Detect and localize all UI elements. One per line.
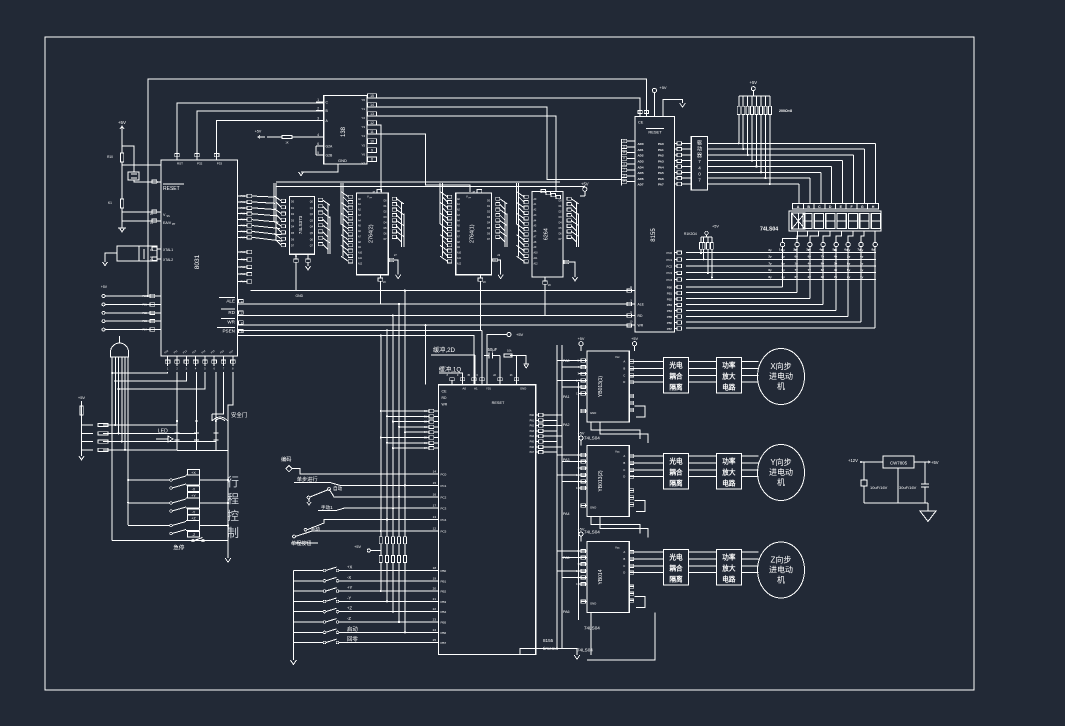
svg-text:手动1: 手动1: [321, 504, 333, 511]
svg-text:AD4: AD4: [638, 165, 644, 169]
svg-text:4y: 4y: [781, 275, 785, 279]
svg-text:PB3: PB3: [667, 303, 673, 307]
svg-text:PA4: PA4: [658, 165, 664, 169]
U5 bottom pin: [478, 275, 486, 284]
+5V supply for reset: [118, 120, 126, 153]
svg-text:8y: 8y: [872, 248, 876, 252]
svg-text:回零: 回零: [347, 636, 358, 643]
svg-text:G2A: G2A: [326, 145, 334, 149]
svg-text:A1: A1: [474, 387, 478, 391]
svg-text:急停: 急停: [173, 544, 185, 552]
wire LED col3 feed: [215, 372, 217, 418]
svg-text:RD: RD: [442, 396, 447, 400]
EPROM U5 2764(1) body: [456, 193, 492, 275]
svg-text:7: 7: [698, 159, 701, 164]
svg-text:A10: A10: [358, 252, 363, 255]
gate vertical r2: [118, 357, 120, 433]
wire reset branch: [122, 146, 134, 172]
svg-text:进电动: 进电动: [769, 467, 793, 477]
svg-text:8y: 8y: [821, 261, 825, 265]
svg-text:PA6: PA6: [658, 177, 664, 181]
svg-text:3y: 3y: [834, 261, 838, 265]
svg-text:7y: 7y: [781, 268, 785, 272]
svg-text:进电动: 进电动: [769, 371, 793, 381]
driver IC YB013(2): [576, 446, 634, 517]
svg-text:3y: 3y: [847, 275, 851, 279]
wire row pc2: [329, 489, 439, 497]
resistor R2: [120, 199, 123, 208]
svg-text:+5V: +5V: [516, 332, 524, 337]
svg-text:12: 12: [433, 527, 437, 531]
svg-text:PA7: PA7: [530, 451, 535, 454]
svg-text:25: 25: [433, 638, 437, 642]
svg-text:光电: 光电: [668, 360, 683, 369]
U7 AD/PA labels: [638, 142, 664, 187]
U7 label RESET: [646, 128, 664, 134]
svg-text:A0: A0: [462, 387, 466, 391]
svg-text:4: 4: [317, 133, 319, 137]
svg-text:A: A: [797, 205, 800, 209]
U7 +5V pin: [652, 85, 667, 116]
svg-text:GND: GND: [590, 411, 596, 415]
rail B: [561, 345, 563, 648]
svg-text:K1: K1: [108, 201, 112, 205]
svg-text:CE: CE: [638, 121, 644, 125]
psu gnd bus: [864, 503, 928, 511]
svg-text:机: 机: [777, 381, 785, 391]
svg-text:C: C: [623, 564, 625, 568]
label danbu: [294, 475, 330, 483]
svg-text:P00: P00: [241, 195, 246, 198]
svg-text:P06: P06: [241, 230, 246, 233]
svg-text:A12: A12: [358, 262, 363, 265]
wire vss: [122, 212, 161, 221]
svg-text:74LS04: 74LS04: [584, 530, 600, 535]
svg-text:2y: 2y: [847, 255, 851, 259]
U9 bottom gnd: [520, 649, 580, 660]
svg-text:1y: 1y: [860, 268, 864, 272]
label 74LS04 y4: [577, 648, 593, 653]
svg-text:Y4: Y4: [361, 134, 365, 138]
8031 P1 pins: [238, 250, 252, 283]
svg-text:19: 19: [433, 576, 437, 580]
door label: [231, 411, 247, 419]
svg-text:3y: 3y: [806, 248, 810, 252]
wire vert v2: [398, 303, 400, 537]
wire A net: [217, 121, 324, 154]
svg-text:PA3: PA3: [658, 160, 664, 164]
wire Y0 to 8155: [377, 98, 640, 116]
+5V YB1 b: [631, 337, 638, 351]
svg-text:6y: 6y: [808, 255, 812, 259]
bus ALE: [238, 303, 635, 305]
svg-text:PB3: PB3: [441, 600, 447, 604]
resistor R 10k: [504, 349, 516, 385]
+5V left block: [78, 395, 86, 450]
psu ground: [920, 511, 936, 521]
svg-text:PA1: PA1: [563, 395, 570, 399]
+5V label left: [101, 285, 108, 289]
svg-text:18: 18: [433, 566, 437, 570]
svg-text:YB014: YB014: [598, 569, 604, 584]
driver chain wires 2: [634, 456, 759, 477]
svg-text:耦合: 耦合: [669, 563, 683, 572]
wire: [121, 208, 123, 228]
svg-text:7: 7: [698, 178, 701, 183]
svg-text:X向步: X向步: [770, 361, 791, 371]
label danchen: [291, 531, 439, 547]
svg-text:PC0: PC0: [441, 473, 447, 477]
U4 right fan: [392, 197, 404, 247]
resistor R1: [120, 153, 123, 162]
AND gate G1: [111, 343, 129, 357]
U9 PB pins: [430, 566, 447, 645]
svg-text:H: H: [872, 205, 875, 209]
latch output boxes near U7: [541, 190, 560, 199]
svg-text:隔离: 隔离: [669, 382, 683, 391]
crystal X1 with caps: [117, 246, 157, 261]
pin 9 box: [152, 180, 159, 184]
svg-text:P21: P21: [142, 302, 147, 306]
U3 ground: [305, 262, 310, 270]
svg-text:8y: 8y: [847, 261, 851, 265]
gate vertical r3: [121, 357, 123, 442]
U7 top pin1: [638, 111, 642, 117]
wire Y0 entry: [639, 112, 641, 116]
U6 bottom pin: [543, 277, 552, 287]
svg-text:PA5: PA5: [658, 171, 664, 175]
svg-text:Y6: Y6: [361, 152, 365, 156]
svg-text:8y: 8y: [768, 275, 772, 279]
svg-text:2764(1): 2764(1): [470, 224, 476, 243]
+5V YB1 a: [578, 337, 585, 351]
label buffer 2D: [431, 346, 475, 355]
svg-text:PB7: PB7: [441, 641, 447, 645]
U5 left fan: [440, 183, 452, 263]
svg-text:B: B: [623, 366, 625, 370]
svg-text:6y: 6y: [844, 248, 848, 252]
svg-text:+5V: +5V: [659, 85, 667, 90]
svg-text:RESET: RESET: [492, 401, 505, 405]
svg-text:+5V: +5V: [255, 130, 262, 134]
svg-text:8: 8: [371, 157, 373, 161]
svg-text:+5V: +5V: [118, 120, 126, 125]
svg-text:P32: P32: [197, 162, 203, 166]
svg-text:Z向步: Z向步: [771, 555, 792, 565]
svg-text:timeout: timeout: [543, 646, 559, 651]
U7 AD pin boxes: [622, 139, 635, 186]
svg-text:隔离: 隔离: [669, 574, 683, 583]
U2 gnd wire: [299, 146, 338, 176]
svg-text:功率: 功率: [722, 360, 736, 369]
svg-text:PA5: PA5: [530, 441, 535, 444]
svg-text:7y: 7y: [795, 268, 799, 272]
svg-text:5y: 5y: [833, 248, 837, 252]
svg-text:74LS04: 74LS04: [760, 227, 778, 233]
svg-text:缓冲,2D: 缓冲,2D: [433, 346, 456, 354]
label R10k: [107, 155, 113, 159]
wire xtal2: [157, 258, 161, 260]
svg-text:2: 2: [317, 107, 319, 111]
svg-text:RD: RD: [228, 310, 235, 315]
wire P1 pin4: [118, 372, 205, 390]
svg-text:PSEN: PSEN: [222, 329, 235, 334]
wire vert v1: [404, 290, 406, 537]
svg-text:12: 12: [370, 121, 374, 125]
svg-text:光电: 光电: [668, 456, 683, 465]
svg-text:A: A: [623, 550, 625, 554]
wire row2: [330, 483, 439, 486]
U5 CS down to 8255: [479, 281, 481, 330]
svg-text:+5V: +5V: [101, 285, 108, 289]
svg-text:PC1: PC1: [667, 258, 673, 262]
svg-text:6264: 6264: [544, 228, 550, 240]
svg-text:Y2: Y2: [361, 116, 365, 120]
svg-text:23: 23: [433, 618, 437, 622]
svg-text:安全门: 安全门: [231, 411, 247, 419]
svg-text:A12: A12: [534, 262, 539, 265]
U9 PA wires to rails: [543, 415, 562, 452]
svg-text:8y: 8y: [781, 261, 785, 265]
svg-text:A: A: [623, 360, 625, 364]
svg-text:WR: WR: [227, 320, 235, 325]
rail stubs: [557, 361, 581, 585]
svg-text:2y: 2y: [768, 248, 772, 252]
wire vert v3: [392, 314, 394, 536]
8031 top pins: [175, 152, 223, 166]
svg-text:4: 4: [698, 165, 701, 170]
svg-text:+Y: +Y: [347, 585, 352, 590]
digit driver transistors: [780, 232, 877, 329]
svg-text:PA0: PA0: [658, 142, 664, 146]
svg-text:YB013(1): YB013(1): [598, 376, 604, 397]
svg-text:PB5: PB5: [441, 621, 447, 625]
svg-text:2764(2): 2764(2): [368, 224, 374, 243]
svg-text:4y: 4y: [808, 261, 812, 265]
svg-text:2y: 2y: [808, 275, 812, 279]
wire: [121, 162, 123, 199]
svg-text:P11: P11: [241, 258, 246, 261]
svg-text:CE: CE: [442, 390, 448, 394]
svg-text:AD1: AD1: [638, 148, 644, 152]
7-segment display DS1: [789, 211, 881, 231]
svg-text:YB013(2): YB013(2): [598, 470, 604, 491]
svg-text:+5V: +5V: [712, 225, 719, 229]
+5V YB2: [578, 432, 585, 446]
bus line A: [276, 181, 560, 183]
svg-text:电路: 电路: [722, 574, 736, 583]
pull-up resistor bank: [354, 537, 406, 634]
label Vss: [163, 213, 170, 218]
svg-text:17: 17: [433, 504, 437, 508]
U9 label RESET: [492, 401, 505, 405]
U6 CS down to bus: [544, 284, 546, 315]
svg-text:RESET: RESET: [163, 186, 180, 192]
stepper motor M1: [758, 349, 805, 405]
IC U7 8155 body: [635, 116, 675, 332]
svg-text:+5V: +5V: [354, 545, 361, 549]
U7 top pin2: [644, 111, 648, 117]
U4 bottom pin: [378, 275, 386, 284]
svg-text:PC3: PC3: [441, 507, 447, 511]
U4 Vcc label: [367, 190, 382, 200]
U9 top pins: [447, 374, 527, 391]
svg-text:1y: 1y: [779, 248, 783, 252]
svg-text:放大: 放大: [721, 467, 736, 476]
travel limit switches: [128, 470, 229, 538]
svg-text:PA4: PA4: [563, 512, 570, 516]
svg-text:D: D: [623, 380, 625, 384]
svg-text:AD0: AD0: [638, 142, 644, 146]
svg-text:6y: 6y: [768, 268, 772, 272]
bus ext2: [238, 336, 475, 385]
svg-text:Vcc: Vcc: [615, 355, 620, 359]
label K1: [108, 201, 112, 205]
wire encoder row: [292, 469, 438, 474]
driver IC YB014: [576, 542, 634, 613]
svg-text:SS: SS: [167, 215, 171, 218]
svg-text:10uF/16V: 10uF/16V: [870, 485, 888, 490]
U6 right fan: [567, 197, 579, 247]
svg-text:耦合: 耦合: [669, 371, 683, 380]
svg-text:PB0: PB0: [667, 286, 673, 290]
svg-text:8155: 8155: [543, 638, 554, 643]
svg-text:制: 制: [227, 526, 239, 540]
svg-text:D: D: [623, 571, 625, 575]
svg-text:功率: 功率: [722, 552, 736, 561]
svg-text:15: 15: [370, 94, 374, 98]
svg-text:D: D: [623, 475, 625, 479]
U2 left pins: [316, 98, 333, 158]
wire vert v6: [380, 334, 382, 536]
label shoudong1: [318, 504, 439, 511]
svg-text:-Y: -Y: [347, 595, 351, 600]
svg-text:隔离: 隔离: [669, 478, 683, 487]
IC U9 8255 body: [439, 385, 536, 655]
svg-text:AD2: AD2: [638, 154, 644, 158]
travel rail: [225, 421, 231, 562]
svg-text:Y1: Y1: [361, 107, 365, 111]
svg-text:D: D: [829, 205, 832, 209]
svg-text:10: 10: [370, 139, 374, 143]
svg-text:PB5: PB5: [667, 315, 673, 319]
opto isolator box 1: [664, 357, 689, 393]
wire r1 to pin: [122, 164, 161, 166]
svg-text:3: 3: [317, 117, 319, 121]
svg-text:74LS04: 74LS04: [584, 626, 600, 631]
svg-text:PB7: PB7: [667, 327, 673, 331]
wire Y2 to 6264: [377, 116, 556, 191]
svg-text:G2B: G2B: [326, 154, 334, 158]
wire Y1 to 8155 CE: [377, 107, 622, 179]
svg-text:5: 5: [317, 151, 319, 155]
opto isolator box 2: [664, 453, 689, 489]
svg-text:驱: 驱: [697, 141, 702, 147]
opto isolator box 3: [664, 549, 689, 585]
power amp box 3: [717, 549, 742, 585]
svg-text:7y: 7y: [808, 268, 812, 272]
8031 P0 port pins: [238, 194, 283, 241]
U4 CS down to bus: [379, 281, 381, 304]
svg-text:PA2: PA2: [658, 154, 664, 158]
wire Y3 to 2764-2: [377, 125, 381, 192]
pullup resistors left: [82, 423, 216, 451]
label XTAL2: [163, 258, 173, 262]
svg-text:EA/V: EA/V: [163, 221, 172, 225]
travel control label: [227, 475, 239, 540]
svg-text:6y: 6y: [795, 255, 799, 259]
svg-text:P13: P13: [241, 273, 246, 276]
wire C net: [177, 103, 324, 154]
svg-text:1: 1: [317, 98, 319, 102]
U9 PC pins: [430, 470, 447, 534]
svg-text:Y0: Y0: [361, 98, 365, 102]
svg-text:C: C: [623, 468, 625, 472]
U6 OE pin: [563, 260, 578, 281]
wire P1 pin6: [212, 372, 224, 414]
svg-text:5y: 5y: [847, 268, 851, 272]
svg-text:A10: A10: [457, 252, 462, 255]
svg-text:ALE: ALE: [638, 303, 645, 307]
PA net labels: [563, 359, 570, 614]
svg-text:13: 13: [370, 112, 374, 116]
LED label: [156, 429, 173, 443]
U5 Vcc label: [466, 190, 482, 200]
gate output up: [119, 336, 121, 343]
stepper motor M2: [758, 445, 805, 501]
svg-text:LED: LED: [158, 429, 168, 435]
wire vert v5: [386, 329, 388, 537]
label GND U2: [338, 158, 347, 163]
svg-text:G: G: [295, 254, 297, 258]
wire P1 pin7: [228, 372, 233, 414]
svg-text:机: 机: [777, 477, 785, 487]
svg-text:功率: 功率: [722, 456, 736, 465]
driver chain wires 1: [634, 362, 759, 383]
svg-text:行: 行: [227, 475, 239, 489]
svg-text:PC4: PC4: [667, 278, 673, 282]
svg-text:+Y: +Y: [191, 494, 196, 498]
svg-text:4y: 4y: [819, 248, 823, 252]
svg-text:PB6: PB6: [667, 321, 673, 325]
svg-text:14: 14: [433, 470, 437, 474]
svg-text:2y: 2y: [781, 255, 785, 259]
U7 PB/PC pins: [667, 251, 682, 331]
svg-text:R10: R10: [107, 155, 113, 159]
cap C11 30uF: [897, 468, 899, 503]
svg-text:单步进行: 单步进行: [297, 475, 318, 483]
svg-text:PB1: PB1: [667, 291, 673, 295]
svg-text:PC0: PC0: [667, 251, 673, 255]
svg-text:22: 22: [433, 607, 437, 611]
svg-text:Vcc: Vcc: [615, 546, 620, 550]
bus wire net1: [250, 291, 635, 298]
SRAM U6 6264 body: [532, 191, 563, 277]
svg-text:PP: PP: [172, 223, 176, 226]
svg-text:PC2: PC2: [667, 265, 673, 269]
svg-text:Y向步: Y向步: [770, 457, 791, 467]
U5 right fan: [496, 197, 508, 247]
jog switch rows: [290, 565, 438, 665]
U6 left fan: [517, 183, 529, 263]
svg-text:+5V: +5V: [578, 337, 585, 341]
+5V YB3: [578, 528, 585, 542]
svg-text:B: B: [807, 205, 810, 209]
svg-text:+5V: +5V: [631, 337, 638, 341]
drawing frame border: [45, 37, 974, 690]
svg-text:+12V: +12V: [848, 458, 858, 463]
label 74LS04 y3: [584, 626, 600, 631]
